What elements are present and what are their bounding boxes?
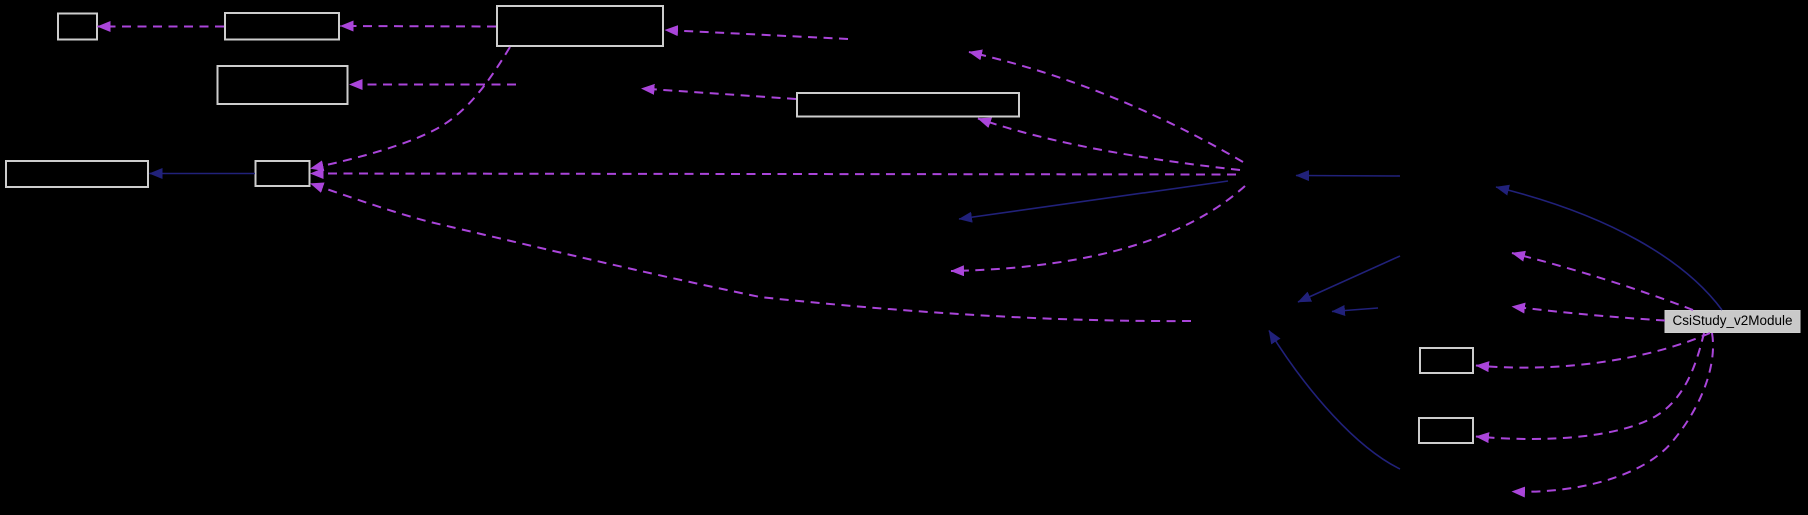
node A bbox=[58, 14, 97, 40]
node I bbox=[1419, 418, 1473, 443]
svg-text:CsiStudy_v2Module: CsiStudy_v2Module bbox=[1672, 313, 1792, 328]
node B bbox=[225, 13, 339, 40]
edge CsiStudy to H dashed curve bbox=[1476, 333, 1710, 368]
node F bbox=[6, 161, 148, 187]
edge CsiStudy to X9 dashed bbox=[1512, 253, 1693, 310]
edge C to B dashed bbox=[341, 25, 497, 28]
edge X8b to X7 solid blue bbox=[1298, 256, 1400, 302]
node E bbox=[797, 93, 1019, 117]
edge E to X1 dashed bbox=[642, 89, 797, 100]
edge B to A dashed bbox=[98, 26, 225, 28]
edge fan to G dashed horizontal bbox=[311, 174, 1237, 175]
edge X6 to G dashed long curve bbox=[311, 184, 1192, 322]
node C bbox=[497, 6, 663, 46]
edge CsiStudy to X12 dashed curve bbox=[1512, 333, 1713, 492]
edge fan to X2 dashed curve bbox=[969, 52, 1243, 162]
edge CsiStudy to I dashed curve bbox=[1476, 333, 1704, 439]
node CsiStudy_v2Module bbox=[1665, 311, 1800, 333]
edge X2 to C dashed bbox=[665, 30, 848, 39]
edge X8 to fan solid blue bbox=[1296, 175, 1400, 178]
node G bbox=[256, 161, 310, 186]
edge CsiStudy to X10 dashed bbox=[1512, 307, 1665, 321]
edge X13 to X6 solid blue curve bbox=[1269, 331, 1400, 470]
node D bbox=[218, 66, 348, 104]
edge fan to X4 solid blue bbox=[959, 181, 1228, 219]
node H bbox=[1420, 348, 1473, 373]
edge short solid blue bbox=[1332, 308, 1378, 312]
edge G to F solid blue bbox=[150, 173, 256, 175]
edge fan to X5 dashed curve bbox=[951, 186, 1245, 271]
edge X1 to D dashed bbox=[350, 84, 517, 86]
edge C to G dashed curve bbox=[311, 47, 511, 169]
edge CsiStudy to X8 solid blue curve bbox=[1496, 187, 1722, 310]
edge fan to E dashed curve bbox=[978, 119, 1240, 171]
